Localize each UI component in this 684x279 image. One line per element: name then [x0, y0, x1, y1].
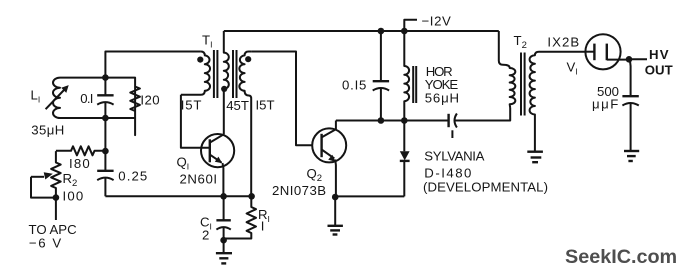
phase dot T1 middle winding bottom	[221, 86, 227, 92]
T2 core	[521, 53, 525, 116]
wire HV output	[629, 58, 647, 60]
node 0.15 top junction dot	[378, 28, 385, 35]
svg-text:LI: LI	[31, 88, 41, 105]
transistor Q2 2N1073B	[312, 128, 346, 162]
Q2 emitter rail to diode	[335, 195, 404, 197]
svg-text:I5T: I5T	[256, 97, 275, 112]
transformer T1 middle winding 45T with riser	[224, 31, 229, 89]
wire top-left rail to T1 primary	[105, 52, 200, 78]
inductor horizontal yoke winding	[404, 31, 409, 121]
svg-text:35μH: 35μH	[31, 123, 64, 138]
svg-text:−6 V: −6 V	[29, 235, 63, 250]
inductor L1 coil (variable, 35uH)	[53, 78, 105, 118]
svg-text:(DEVELOPMENTAL): (DEVELOPMENTAL)	[423, 179, 548, 194]
svg-text:D-I480: D-I480	[424, 166, 473, 181]
wire Q2 collector up to mid rail	[335, 121, 337, 130]
svg-text:T2: T2	[514, 33, 527, 51]
wire stub to APC	[55, 198, 57, 220]
svg-text:2NI073B: 2NI073B	[272, 183, 326, 198]
ground below T2 secondary	[527, 152, 543, 163]
transformer T2 primary winding	[499, 31, 516, 108]
node Q2 emitter junction dot	[332, 194, 339, 201]
wire T1 primary bottom to Q1 base	[181, 95, 210, 148]
-12V supply tap	[404, 20, 417, 31]
wire Q1 emitter down	[222, 163, 225, 196]
svg-text:I20: I20	[140, 92, 160, 107]
svg-text:SeekIC.com: SeekIC.com	[565, 246, 677, 268]
capacitor 0.1	[97, 78, 113, 118]
phase dot T1 right winding	[245, 56, 251, 62]
svg-text:TI: TI	[202, 33, 212, 50]
node B junction dot	[102, 115, 109, 122]
capacitor C1	[216, 196, 230, 240]
resistor 180	[56, 146, 106, 155]
T1 core left pair	[214, 50, 218, 98]
wire Q1 collector to 45T	[223, 89, 225, 134]
wire T1 right winding to Q2 base	[252, 52, 312, 146]
svg-text:−I2V: −I2V	[422, 13, 452, 28]
damper diode D-1480	[400, 121, 410, 197]
transistor Q1 2N601	[201, 134, 234, 167]
svg-text:2N60I: 2N60I	[180, 172, 218, 187]
svg-text:0.I5: 0.I5	[342, 78, 367, 93]
ground below C1	[216, 240, 232, 263]
node R1 top junction dot	[248, 193, 255, 200]
svg-text:I80: I80	[69, 156, 91, 171]
node A junction dot	[102, 74, 109, 81]
arrow of variable inductor L1	[46, 85, 69, 109]
rheostat R2 wiper arrow and return wire	[31, 172, 56, 197]
coupling capacitor to T2	[449, 114, 457, 139]
mid rail coupling capacitor to T2	[455, 108, 510, 121]
ground below 500uuF capacitor	[624, 151, 639, 161]
node HV junction dot	[626, 56, 633, 63]
node 0.15 bottom junction dot	[378, 117, 385, 124]
node C1 bottom junction dot	[220, 237, 227, 244]
capacitor 0.15	[373, 31, 389, 121]
rheostat R2 element	[51, 151, 61, 198]
svg-text:2: 2	[202, 227, 209, 242]
transformer T2 secondary winding HV	[530, 52, 586, 151]
T1 core right pair	[233, 50, 237, 98]
HV rectifier tube V1	[585, 34, 629, 69]
svg-text:0.25: 0.25	[118, 168, 148, 183]
svg-text:0.I: 0.I	[80, 91, 92, 106]
svg-text:IX2B: IX2B	[547, 35, 580, 50]
svg-text:HV: HV	[649, 47, 670, 62]
svg-text:VI: VI	[567, 60, 578, 77]
svg-text:QI: QI	[177, 155, 190, 172]
svg-text:Q2: Q2	[307, 166, 323, 184]
svg-text:56μH: 56μH	[425, 91, 460, 106]
mid rail Q2 collector to coupling capacitor	[336, 120, 449, 122]
svg-text:45T: 45T	[226, 98, 249, 113]
svg-text:R2: R2	[63, 171, 78, 189]
node Q1 emitter junction dot	[220, 193, 227, 200]
capacitor 500uuF	[622, 59, 638, 150]
wire Q2 emitter down	[334, 160, 337, 198]
node D junction dot	[53, 194, 60, 201]
ground below Q2	[328, 197, 343, 235]
resistor 120	[105, 78, 139, 136]
svg-text:I: I	[261, 219, 265, 234]
resistor R1	[224, 196, 256, 238]
node C junction dot	[102, 148, 109, 155]
node -12V junction dot	[401, 28, 408, 35]
svg-text:I5T: I5T	[181, 97, 202, 112]
svg-text:SYLVANIA: SYLVANIA	[424, 149, 484, 164]
capacitor 0.25	[97, 151, 113, 196]
svg-text:I00: I00	[63, 189, 85, 204]
node yoke bottom junction dot	[401, 117, 408, 124]
phase dot T1 primary	[197, 57, 203, 63]
top rail -12V bus	[224, 30, 499, 32]
bottom rail left section	[105, 195, 251, 197]
svg-text:OUT: OUT	[645, 63, 673, 78]
yoke core lines	[413, 66, 416, 103]
transformer T1 right winding 15T	[239, 52, 252, 197]
transformer T1 primary winding 15T	[181, 52, 210, 95]
svg-text:μμF: μμF	[592, 96, 620, 111]
wire node B to node C	[104, 118, 106, 151]
